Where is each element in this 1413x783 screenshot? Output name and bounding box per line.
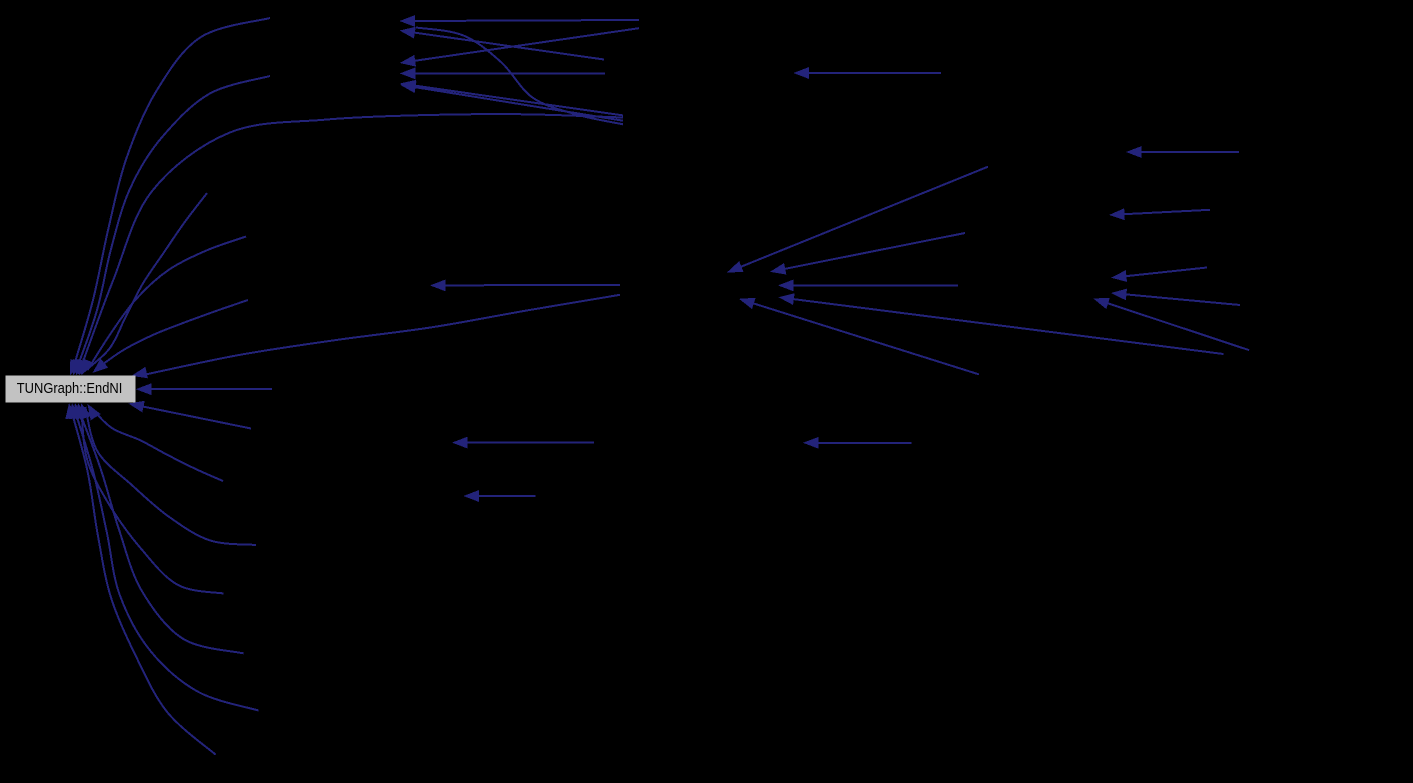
edge U2 into TUNGraph::EndNI — [73, 76, 270, 376]
edge into hidden node R2 — [770, 233, 965, 275]
edge S-curve into hidden node A2 — [416, 28, 623, 125]
edge into hidden node R10 — [1093, 298, 1249, 350]
edge into hidden node R3 — [778, 280, 958, 292]
edge B6 into TUNGraph::EndNI — [69, 403, 259, 711]
edge into hidden node A3 — [400, 28, 639, 66]
edge into hidden node R6 — [1126, 146, 1239, 158]
edge B2 into TUNGraph::EndNI — [88, 404, 224, 481]
edge M0 horizontal into TUNGraph::EndNI — [136, 383, 272, 395]
edge into hidden node M5 — [793, 67, 941, 79]
edge U7 diagonal into TUNGraph::EndNI — [132, 295, 621, 379]
edge U4 into TUNGraph::EndNI — [78, 193, 207, 376]
edge B7 into TUNGraph::EndNI — [65, 403, 215, 755]
edge B5 into TUNGraph::EndNI — [73, 403, 244, 653]
edge into hidden node R9 — [1111, 289, 1240, 305]
edge B1 into TUNGraph::EndNI — [128, 401, 251, 429]
edge into hidden node A1 — [400, 15, 640, 27]
edge into hidden node R1 — [727, 167, 988, 273]
edge into hidden node A4 — [400, 68, 605, 80]
edge into hidden node A2 — [400, 27, 605, 60]
svg-text:TUNGraph::EndNI: TUNGraph::EndNI — [17, 380, 123, 397]
node TUNGraph::EndNI — [6, 376, 135, 402]
edge into hidden node R7 — [1109, 208, 1210, 220]
edge B3 into TUNGraph::EndNI — [80, 403, 256, 545]
edge into hidden node M3 — [463, 490, 535, 502]
edge into hidden node R8 — [1111, 268, 1207, 282]
edge into hidden node M1 — [430, 280, 620, 292]
edge into hidden node R4 long diagonal — [779, 293, 1224, 354]
edge into hidden node M4 — [803, 437, 912, 449]
edge U6 into TUNGraph::EndNI — [93, 300, 249, 373]
edge U5 into TUNGraph::EndNI — [82, 237, 246, 375]
edge into hidden node A5 (second) — [400, 81, 623, 120]
edge into hidden node M2 — [452, 437, 594, 449]
edge B4 into TUNGraph::EndNI — [76, 403, 224, 594]
edge U1 into TUNGraph::EndNI — [70, 18, 270, 376]
edge C3 long curve into TUNGraph::EndNI — [75, 114, 623, 375]
edge into hidden node A5 — [400, 80, 623, 116]
edge into hidden node R5 — [739, 298, 979, 375]
